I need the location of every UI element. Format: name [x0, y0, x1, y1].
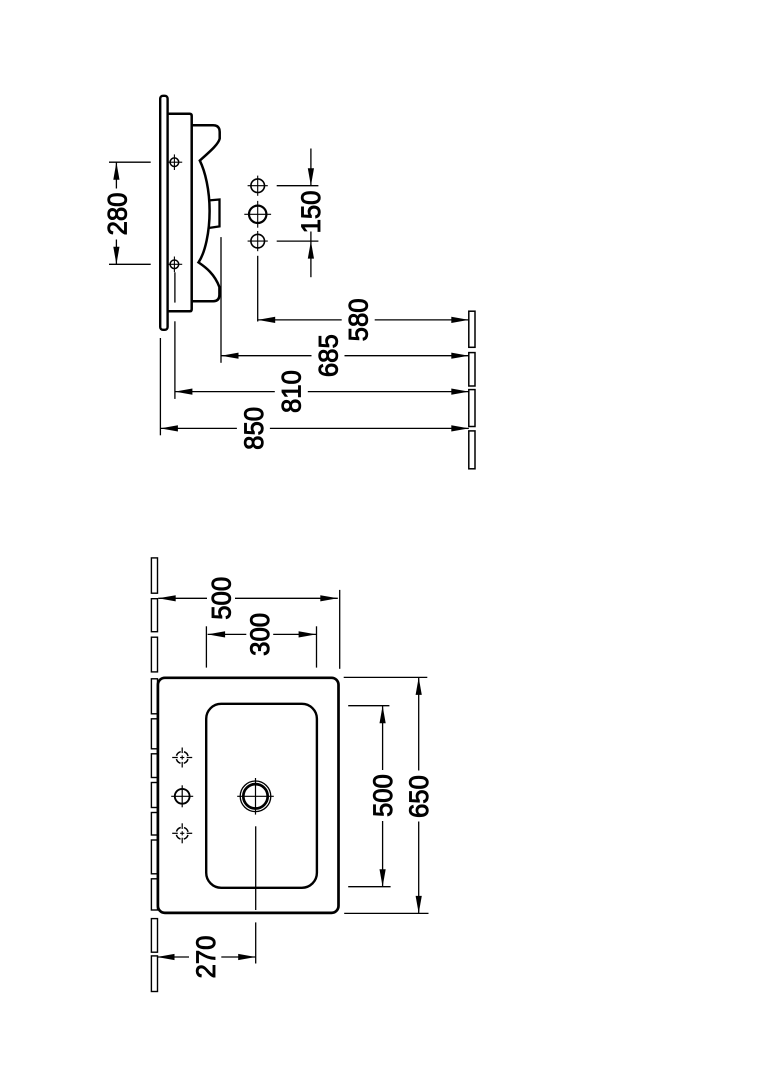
- dimension 810 (mounting holes to front): [175, 389, 193, 395]
- wall line (side view): [160, 96, 167, 330]
- svg-text:850: 850: [238, 407, 269, 450]
- dimension 500 (basin width, plan): [339, 590, 341, 669]
- washbasin outer rim (plan view): [158, 678, 339, 913]
- dimension 500 (inner basin depth, plan): [348, 705, 389, 707]
- front reference line segment 3 (side view): [469, 390, 475, 427]
- extension line tap hole column: [257, 256, 259, 322]
- dimension 270 (wall to drain, plan): [255, 826, 257, 910]
- dimension 850 (wall to front): [160, 425, 178, 431]
- mounting hole lower (side view): [170, 260, 179, 269]
- extension line wall face: [159, 338, 161, 435]
- tap hole small lower (side view): [251, 234, 265, 248]
- svg-text:500: 500: [367, 774, 398, 817]
- tap hole upper dashed (plan view): [176, 752, 188, 764]
- svg-text:300: 300: [244, 613, 275, 656]
- wall line (plan view): [151, 558, 157, 593]
- extension line mounting hole column: [174, 272, 176, 302]
- svg-text:150: 150: [295, 191, 326, 234]
- svg-text:280: 280: [102, 193, 133, 236]
- dimension 280 (mounting holes spacing): [109, 161, 151, 163]
- tap hole middle (plan view): [175, 789, 190, 804]
- front reference line segment 2 (side view): [469, 353, 475, 386]
- inner basin (plan view): [206, 704, 317, 888]
- tap hole small upper (side view): [251, 179, 265, 193]
- svg-text:580: 580: [343, 298, 374, 341]
- svg-text:500: 500: [206, 577, 237, 620]
- overflow tab (side view): [209, 200, 219, 228]
- drain outlet (plan view): [240, 781, 271, 812]
- dimension 685 (overflow to front): [221, 353, 239, 359]
- front reference line segment 1 (side view): [469, 311, 475, 347]
- dimension 150 (tap hole spacing): [277, 185, 319, 187]
- front reference line segment 4 (side view): [469, 431, 475, 469]
- svg-text:650: 650: [403, 775, 434, 818]
- extension line overflow tab: [220, 237, 222, 363]
- dimension 650 (basin depth, plan): [344, 676, 428, 678]
- tap hole lower dashed (plan view): [176, 827, 188, 839]
- tap hole large middle (side view): [249, 206, 266, 223]
- washbasin front profile (side view): [192, 125, 220, 301]
- svg-text:270: 270: [191, 936, 222, 979]
- svg-text:685: 685: [313, 334, 344, 377]
- washbasin back plate (side view): [167, 114, 192, 311]
- mounting hole upper (side view): [170, 158, 179, 167]
- dimension 300 (inner basin width, plan): [205, 626, 207, 667]
- dimension 580 (tap holes to front): [258, 317, 276, 323]
- svg-text:810: 810: [276, 370, 307, 413]
